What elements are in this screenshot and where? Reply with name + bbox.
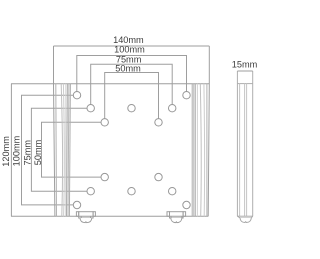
side view top edge [237,83,252,85]
dimension line 100mm left [22,95,74,205]
svg-text:75mm: 75mm [23,140,33,166]
bottom clamp tab left [76,212,95,223]
dimension line 120mm left [10,84,12,217]
dimension line 75mm left [31,108,87,191]
side view left edge with 15mm bracket drop [236,71,238,216]
svg-text:100mm: 100mm [11,135,21,166]
bottom clamp tab right [167,212,186,223]
svg-text:15mm: 15mm [232,59,258,69]
plate left edge with 140mm left extension drop [54,46,55,216]
svg-text:120mm: 120mm [1,136,11,167]
hole row4 right [155,173,162,180]
mounting holes, 14x [73,92,190,209]
plate top edge with 120mm top extension [11,83,209,85]
side view body [237,71,252,216]
hole row6 right [183,201,190,208]
svg-text:50mm: 50mm [115,63,141,73]
hole row2 left [87,105,94,112]
hole row5 left [87,188,94,195]
side view inner fold lines [239,84,241,217]
hole row5 center [128,188,135,195]
hole row6 left [73,201,80,208]
svg-text:50mm: 50mm [33,139,43,165]
hole row5 right [169,188,176,195]
right rail bend lines [192,84,207,217]
dimension line 50mm left [42,122,102,177]
hole row1 left [73,92,80,99]
side view bottom knob [237,216,252,222]
hole row1 right [183,92,190,99]
plate right edge with 140mm right extension drop [208,46,209,216]
dimension line 140mm [54,45,210,47]
svg-text:100mm: 100mm [114,45,145,55]
hole row2 center [128,105,135,112]
hole row2 right [169,105,176,112]
side view right edge with 15mm bracket drop [252,71,254,216]
dimension line 100mm top [77,56,187,92]
plate bottom edge with 120mm bottom extension [11,215,208,217]
side view bottom edge [237,215,252,217]
hole row3 right [155,119,162,126]
dimension line 50mm top [105,73,159,119]
hole row4 left [101,173,108,180]
left rail bend lines [56,84,71,217]
dimension line 75mm top [91,64,173,104]
hole row3 left [101,119,108,126]
dimension line 15mm [237,70,252,72]
